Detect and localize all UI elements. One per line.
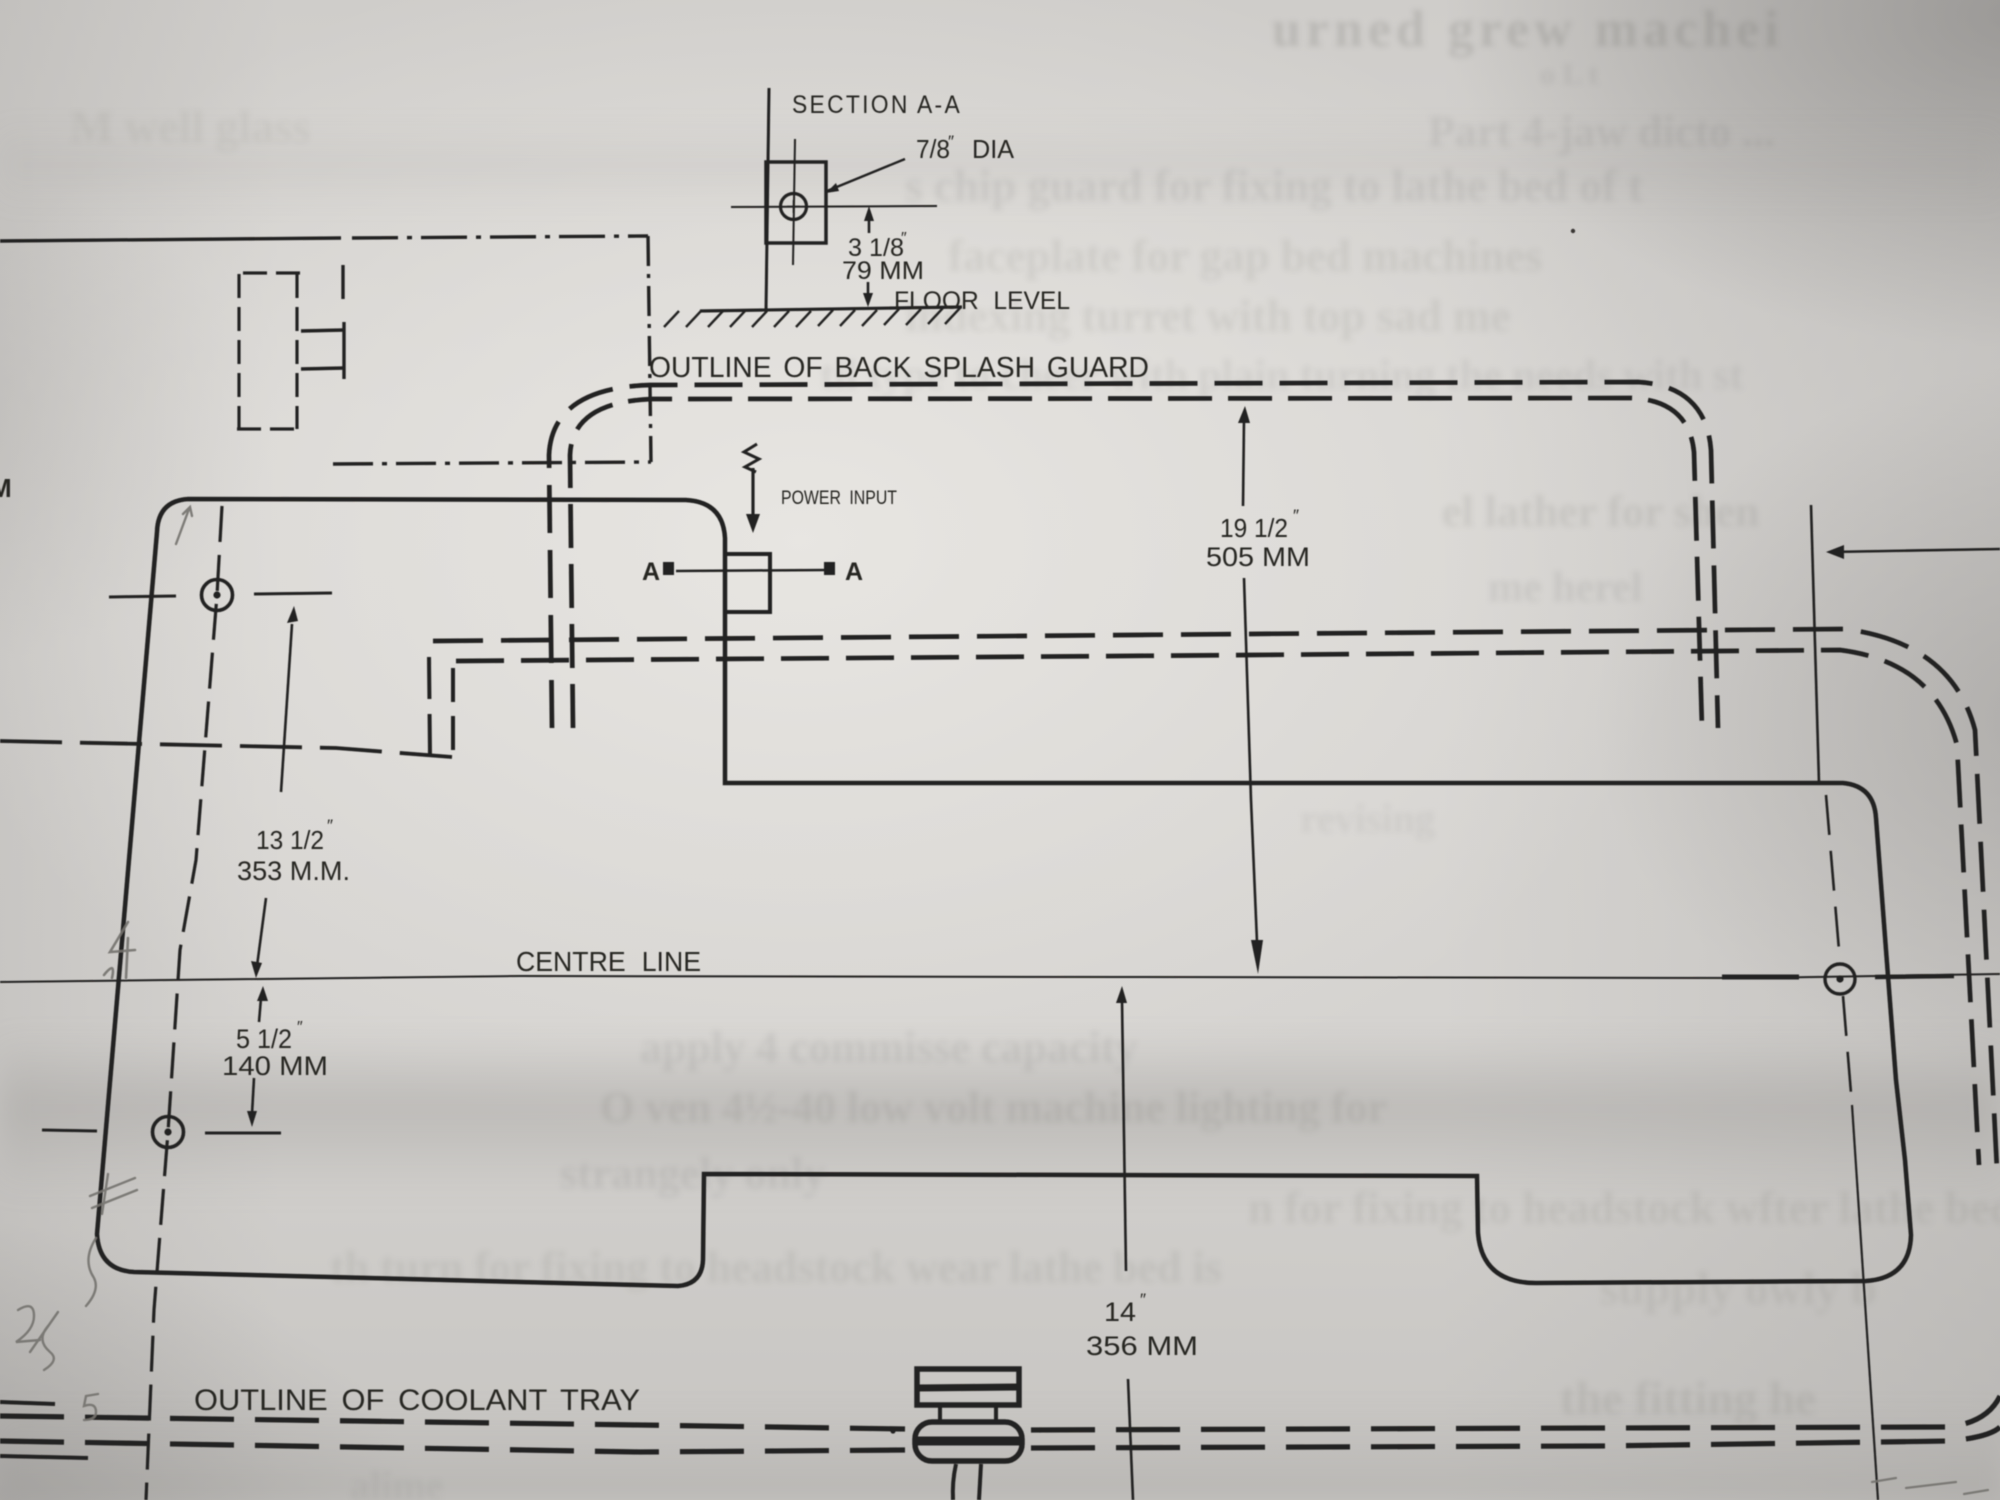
svg-text:OUTLINE OF BACK SPLASH GUARD: OUTLINE OF BACK SPLASH GUARD (649, 352, 1149, 384)
svg-text:OUTLINE OF COOLANT TRAY: OUTLINE OF COOLANT TRAY (194, 1384, 640, 1417)
svg-text:14: 14 (1104, 1297, 1136, 1327)
svg-text:7/8: 7/8 (916, 134, 950, 164)
svg-text:140 MM: 140 MM (222, 1051, 328, 1081)
svg-text:M: M (0, 473, 12, 503)
svg-text:DIA: DIA (972, 134, 1015, 164)
svg-text:A: A (642, 558, 660, 586)
svg-text:353 M.M.: 353 M.M. (237, 856, 350, 886)
svg-text:POWER INPUT: POWER INPUT (781, 487, 897, 509)
svg-text:505 MM: 505 MM (1206, 542, 1310, 572)
svg-text:SECTION A-A: SECTION A-A (792, 91, 962, 119)
svg-text:5 1/2: 5 1/2 (236, 1024, 292, 1054)
svg-text:13 1/2: 13 1/2 (256, 825, 324, 855)
svg-text:FLOOR LEVEL: FLOOR LEVEL (894, 287, 1070, 315)
svg-text:″: ″ (1140, 1290, 1146, 1309)
svg-text:″: ″ (327, 816, 333, 835)
svg-text:″: ″ (297, 1019, 303, 1036)
svg-text:″: ″ (1293, 506, 1299, 525)
svg-text:A: A (845, 558, 863, 586)
svg-text:CENTRE LINE: CENTRE LINE (516, 946, 701, 977)
svg-text:79 MM: 79 MM (842, 257, 924, 285)
svg-text:″: ″ (948, 132, 954, 151)
svg-text:″: ″ (901, 230, 907, 247)
svg-text:19 1/2: 19 1/2 (1220, 513, 1288, 543)
svg-text:356 MM: 356 MM (1086, 1331, 1198, 1361)
